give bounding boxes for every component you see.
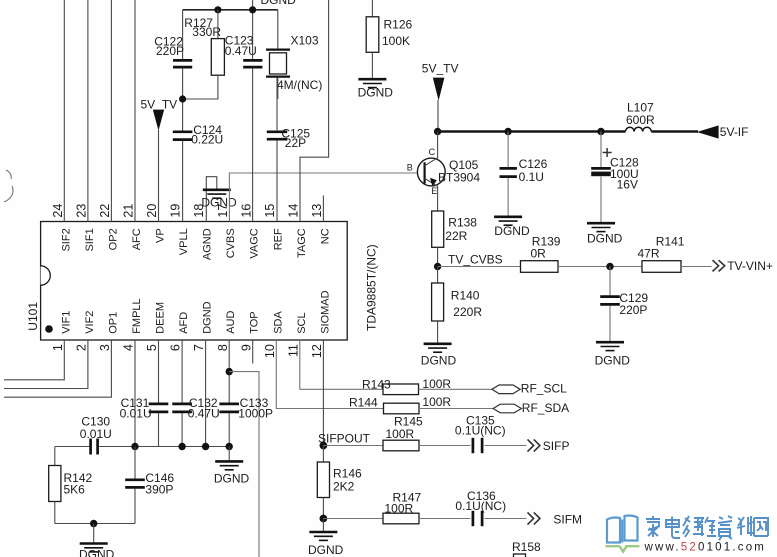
svg-text:TDA9885T/(NC): TDA9885T/(NC) (365, 244, 379, 331)
wire DGND rail stub up (252, 0, 254, 10)
svg-text:5V-IF: 5V-IF (720, 125, 749, 139)
svg-text:3: 3 (98, 344, 112, 351)
wire junction row y=446.5 (55, 446, 90, 448)
svg-text:20: 20 (145, 204, 159, 218)
wire pin5 via C131 (158, 340, 160, 403)
IC U101 body TDA9885T (41, 222, 348, 341)
wire R145 to C135 (419, 445, 471, 447)
wire pin15 via C125 and X103 (276, 140, 278, 221)
svg-text:22R: 22R (445, 229, 467, 243)
svg-text:5K6: 5K6 (64, 483, 86, 497)
ground DGND below R126 (358, 79, 386, 87)
wire pin20 to 5V_TV arrow (158, 130, 160, 222)
wire pin6 via C132 (181, 340, 183, 403)
flag RF_SCL (492, 385, 520, 394)
node dot C126 top (504, 128, 511, 135)
flag arrow 5V-IF (697, 125, 719, 138)
svg-text:DGND: DGND (358, 85, 394, 99)
inductor L107 (626, 127, 652, 131)
svg-text:AGND: AGND (202, 228, 214, 260)
wire pin2 exit left (4, 340, 88, 389)
node dot 5V_TV (179, 95, 186, 102)
svg-text:RF_SDA: RF_SDA (522, 401, 569, 415)
svg-text:VP: VP (155, 228, 167, 243)
wire pin3 exit left (4, 340, 111, 397)
svg-text:TAGC: TAGC (296, 228, 308, 258)
svg-text:DGND: DGND (214, 471, 250, 485)
IC notch (41, 266, 51, 285)
ground DGND below R140 (424, 344, 452, 352)
wire AUD to long vertical (229, 372, 259, 557)
svg-text:www.520101.com: www.520101.com (644, 542, 767, 554)
svg-text:SIFP: SIFP (543, 439, 570, 453)
svg-text:R141: R141 (656, 235, 685, 249)
svg-text:AFD: AFD (178, 312, 190, 334)
svg-text:330R: 330R (192, 25, 221, 39)
svg-text:DGND: DGND (308, 543, 344, 557)
svg-text:47R: 47R (638, 247, 660, 261)
IC bottom pin numbers 1..12 (51, 344, 324, 358)
svg-text:AUD: AUD (225, 311, 237, 334)
wire SIFPOUT to R145 (323, 445, 383, 447)
capacitor C123 (243, 59, 262, 62)
wire C136 to SIFM (484, 518, 526, 520)
svg-text:19: 19 (169, 204, 183, 218)
wire R141 to TV-VIN+ (681, 266, 712, 268)
svg-text:DGND: DGND (202, 301, 214, 333)
capacitor C146 (134, 447, 136, 479)
wire pin24 up (63, 0, 65, 222)
svg-text:220R: 220R (453, 305, 482, 319)
capacitor C130 (89, 439, 92, 455)
node dot C123 top (249, 6, 256, 13)
svg-text:X103: X103 (291, 34, 319, 48)
svg-text:0.1U: 0.1U (519, 170, 544, 184)
svg-text:DGND: DGND (201, 196, 237, 210)
svg-text:0.47U: 0.47U (225, 44, 257, 58)
svg-text:100R: 100R (422, 395, 451, 409)
svg-text:13: 13 (310, 204, 324, 218)
supply arrow 5V_TV to Q105 collector rail (433, 78, 445, 101)
resistor R145 (383, 440, 419, 451)
svg-text:DGND: DGND (421, 354, 457, 368)
wire top DGND rail (183, 9, 278, 11)
capacitor C129 (609, 267, 611, 296)
svg-text:24: 24 (51, 204, 65, 218)
svg-text:1: 1 (51, 344, 65, 351)
svg-text:0.1U(NC): 0.1U(NC) (455, 499, 506, 513)
capacitor C133 (219, 403, 239, 406)
svg-text:U101: U101 (26, 302, 40, 331)
resistor R127 (217, 10, 219, 39)
resistor R140 (437, 267, 439, 284)
svg-text:TV_CVBS: TV_CVBS (448, 253, 503, 267)
svg-text:2: 2 (75, 344, 89, 351)
capacitor C135 (472, 438, 475, 453)
wire pin22 up (110, 0, 112, 222)
ground DGND bottom-left (93, 524, 95, 543)
ground DGND at pin18 (203, 190, 231, 198)
ground DGND below C129 (596, 342, 624, 350)
crystal X103 (277, 10, 279, 49)
svg-text:R143: R143 (362, 378, 391, 392)
capacitor C128 electrolytic (600, 132, 602, 168)
node dot R146 bottom (320, 515, 328, 523)
svg-text:100K: 100K (382, 34, 410, 48)
svg-text:12: 12 (310, 344, 324, 358)
node dot pin8 AUD tap (226, 368, 233, 375)
svg-text:16: 16 (239, 204, 253, 218)
flag chevron TV-VIN+ (713, 260, 725, 271)
svg-text:10: 10 (263, 344, 277, 358)
node dot pin8 row (226, 443, 233, 450)
svg-text:DGND: DGND (595, 354, 631, 368)
svg-text:CVBS: CVBS (225, 228, 237, 258)
IC top pin numbers 24..13 (51, 204, 324, 218)
wire pin7 down (205, 340, 207, 447)
node dot ground stem (90, 520, 97, 527)
svg-text:600R: 600R (626, 113, 655, 127)
wire pin10 SDA to R144 (276, 340, 383, 409)
resistor R144 (384, 403, 420, 414)
svg-text:100R: 100R (385, 502, 414, 516)
svg-text:OP2: OP2 (107, 228, 119, 250)
capacitor C126 (500, 167, 517, 170)
transistor Q105 BT3904 (417, 158, 445, 186)
node dot C129 top (606, 263, 613, 270)
resistor R126 (371, 0, 373, 17)
wire R144 to flag (419, 408, 493, 410)
svg-text:4M/(NC): 4M/(NC) (277, 78, 322, 92)
wire pin8 via C133 (228, 340, 230, 403)
resistor R142 (54, 447, 56, 466)
svg-text:0.01U: 0.01U (120, 407, 152, 421)
svg-text:22: 22 (98, 204, 112, 218)
svg-text:RF_SCL: RF_SCL (521, 382, 567, 396)
wire to R147 (323, 518, 383, 520)
svg-text:0.47U: 0.47U (188, 407, 220, 421)
svg-text:SIF1: SIF1 (84, 228, 96, 251)
svg-text:REF: REF (272, 228, 284, 250)
wire R139 to node (558, 266, 642, 268)
IC top pin labels (inside) (60, 228, 331, 260)
IC pin-1 dot (45, 325, 53, 333)
watermark logo: open book icon (607, 516, 638, 543)
svg-text:VAGC: VAGC (249, 228, 261, 258)
svg-text:OP1: OP1 (107, 312, 119, 334)
svg-text:SDA: SDA (272, 311, 284, 334)
svg-text:DGND: DGND (587, 232, 623, 246)
svg-text:FMPLL: FMPLL (131, 298, 143, 333)
wire pin12 SIOMAD down to SIFPOUT (322, 340, 324, 446)
supply arrow 5V_TV to pin20 (153, 110, 164, 131)
resistor R138 (432, 211, 444, 247)
svg-text:BT3904: BT3904 (438, 171, 480, 185)
svg-text:6: 6 (169, 344, 183, 351)
wire pin23 up (87, 0, 89, 222)
wire R142/C146 bottom (55, 523, 135, 525)
svg-text:9: 9 (239, 344, 253, 351)
svg-text:0R: 0R (531, 247, 547, 261)
svg-text:390P: 390P (145, 483, 173, 497)
svg-text:AFC: AFC (131, 228, 143, 250)
svg-text:DEEM: DEEM (155, 302, 167, 334)
svg-text:2K2: 2K2 (333, 480, 355, 494)
svg-text:SIFM: SIFM (553, 512, 582, 526)
wire pin21 up (134, 0, 136, 222)
resistor R141 (642, 261, 681, 273)
wire pin9 stub (252, 340, 254, 364)
node dot R127 top (214, 6, 221, 13)
resistor R139 (521, 261, 559, 273)
capacitor C124 (173, 130, 193, 133)
svg-text:NC: NC (319, 228, 331, 244)
svg-text:R144: R144 (349, 396, 378, 410)
svg-text:4: 4 (122, 344, 136, 351)
node dot collector rail (434, 128, 441, 135)
capacitor C136 (472, 511, 475, 526)
wire R143 to flag (419, 388, 492, 390)
wire pin4 down (134, 340, 136, 447)
svg-text:SCL: SCL (296, 312, 308, 333)
wire TV_CVBS to R139 (438, 266, 521, 268)
svg-text:22P: 22P (285, 136, 306, 150)
node dot C128 top (597, 128, 604, 135)
ground DGND below C128 (587, 223, 615, 231)
ground DGND row (228, 447, 230, 461)
svg-text:1000P: 1000P (238, 407, 273, 421)
flag chevron SIFM (528, 512, 540, 524)
svg-text:DGND: DGND (494, 224, 530, 238)
watermark logo: green book base (606, 546, 640, 551)
wire pin17 CVBS to Q105 base (229, 173, 417, 222)
wire R147 to C136 (419, 518, 471, 520)
svg-text:8: 8 (216, 344, 230, 351)
capacitor C125 (267, 130, 287, 133)
svg-text:SIOMAD: SIOMAD (319, 290, 331, 333)
svg-text:TV-VIN+: TV-VIN+ (727, 259, 773, 273)
svg-text:DGND: DGND (79, 547, 115, 557)
wire C135 to SIFP (484, 445, 526, 447)
svg-text:TOP: TOP (249, 311, 261, 333)
svg-text:SIF2: SIF2 (60, 228, 72, 251)
svg-text:14: 14 (286, 204, 300, 218)
node TV_CVBS (434, 263, 441, 270)
wire pin18 to DGND (206, 177, 217, 222)
svg-text:220P: 220P (156, 44, 184, 58)
svg-text:0.22U: 0.22U (191, 133, 223, 147)
node dot pin6 row (178, 443, 185, 450)
svg-text:C126: C126 (519, 157, 548, 171)
svg-text:R158: R158 (512, 540, 541, 554)
svg-text:11: 11 (286, 344, 300, 357)
svg-text:DGND: DGND (261, 0, 297, 7)
svg-text:0.01U: 0.01U (80, 427, 112, 441)
flag chevron SIFP (528, 439, 540, 451)
resistor R146 (322, 446, 324, 463)
svg-text:5: 5 (145, 344, 159, 351)
svg-text:21: 21 (122, 204, 136, 218)
svg-text:B: B (407, 162, 413, 172)
svg-text:VIF2: VIF2 (84, 311, 96, 334)
wire 5V rail (438, 130, 626, 132)
node dot pin7 row (202, 443, 209, 450)
watermark text 家电维修资料网 (drawn strokes) (646, 516, 768, 540)
wire pin11 SCL to R143 (300, 340, 383, 389)
wire pin1 exit left (4, 340, 64, 380)
svg-text:VPLL: VPLL (178, 228, 190, 255)
svg-text:E: E (431, 186, 437, 196)
svg-text:R140: R140 (451, 289, 480, 303)
svg-text:VIF1: VIF1 (60, 311, 72, 334)
wire L107 to 5V-IF (651, 130, 698, 132)
svg-text:C: C (429, 147, 436, 157)
resistor R147 (383, 513, 419, 524)
svg-text:7: 7 (192, 344, 206, 351)
svg-text:R126: R126 (384, 17, 413, 31)
svg-text:R146: R146 (333, 466, 362, 480)
svg-text:15: 15 (263, 204, 277, 218)
IC bottom pin labels (inside) (60, 290, 331, 333)
flag RF_SDA (493, 404, 521, 413)
svg-text:5V_TV: 5V_TV (422, 62, 459, 76)
ground DGND below C126 (494, 217, 522, 225)
node dot pin4 row (131, 443, 138, 450)
svg-text:5V_TV: 5V_TV (141, 98, 178, 112)
resistor R143 (383, 384, 419, 395)
capacitor C131 (149, 403, 169, 406)
wire pin14 TAGC up and over (300, 0, 329, 222)
svg-text:23: 23 (75, 204, 89, 218)
wire pin19 via C124 to 5V_TV node (182, 99, 184, 131)
svg-text:R138: R138 (448, 216, 477, 230)
wire pin16 via C123 to top DGND rail (252, 10, 254, 59)
ground DGND below R146 (322, 519, 324, 531)
svg-text:100R: 100R (386, 427, 415, 441)
capacitor C132 (172, 403, 192, 406)
left-edge clipped marks (6, 170, 11, 179)
wire pin13 stub (322, 196, 324, 222)
svg-text:220P: 220P (619, 303, 647, 317)
svg-text:0.1U(NC): 0.1U(NC) (455, 424, 506, 438)
capacitor C122 (182, 10, 184, 59)
svg-text:16V: 16V (617, 178, 638, 192)
